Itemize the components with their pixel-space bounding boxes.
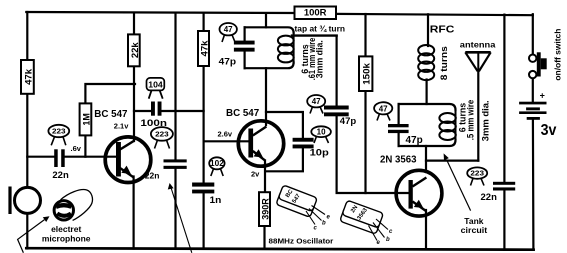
- wire Q1 emitter to ground: [133, 177, 135, 249]
- svg-text:47: 47: [312, 97, 321, 106]
- svg-text:2.1v: 2.1v: [114, 122, 129, 131]
- wire tank2 bottom: [399, 140, 456, 146]
- wire tank2 coil right side: [455, 109, 457, 141]
- svg-text:47p: 47p: [406, 135, 423, 146]
- resistor 1M: [80, 103, 92, 135]
- wire battery to ground rail: [532, 120, 535, 250]
- switch on/off: [529, 52, 547, 78]
- svg-text:47p: 47p: [219, 56, 237, 67]
- svg-text:b: b: [322, 221, 326, 227]
- svg-text:2N 3563: 2N 3563: [380, 154, 417, 165]
- svg-text:tap at ¾ turn: tap at ¾ turn: [295, 24, 346, 33]
- wire 22k to Q1 collector: [133, 66, 135, 141]
- wire top supply rail left segment: [26, 12, 296, 13]
- ceramic disc 223 (first): [48, 125, 69, 146]
- wire Q3 emitter to ground: [425, 210, 427, 249]
- svg-text:antenna: antenna: [460, 39, 496, 49]
- ceramic disc 47 (tank2): [374, 102, 392, 120]
- svg-text:104: 104: [148, 80, 163, 90]
- capacitor 47p (tank2): [388, 124, 409, 133]
- wire 47p coupling to Q3 base corner: [337, 116, 409, 193]
- wire tank1 top: [245, 27, 294, 33]
- svg-text:10: 10: [317, 127, 326, 136]
- wire tank2 left below cap: [398, 133, 400, 146]
- svg-text:.6v: .6v: [71, 144, 82, 153]
- svg-text:47: 47: [224, 25, 233, 34]
- svg-text:223: 223: [52, 127, 66, 136]
- wire tank1 coil right side: [293, 32, 295, 63]
- transistor Q1 BC547: [105, 137, 151, 183]
- wire 1n to ground: [203, 193, 205, 249]
- svg-text:100R: 100R: [304, 8, 327, 19]
- resistor 390R: [259, 192, 271, 226]
- transistor package pictorial 2N3563: [340, 200, 388, 240]
- wire 390R to ground: [263, 226, 265, 249]
- svg-text:2v: 2v: [251, 169, 260, 178]
- leader arrow microphone: [18, 216, 50, 253]
- svg-text:223: 223: [155, 130, 169, 139]
- svg-text:390R: 390R: [261, 198, 271, 220]
- antenna symbol: [465, 52, 490, 71]
- svg-text:.5 mm wire: .5 mm wire: [466, 100, 476, 141]
- svg-text:electret: electret: [51, 224, 81, 234]
- wire 22n(3) to ground: [503, 190, 505, 249]
- resistor 100R: [295, 7, 337, 20]
- ceramic disc 223 (output): [467, 167, 487, 185]
- resistor 22k: [128, 34, 140, 66]
- ceramic disc 10: [311, 126, 331, 143]
- svg-text:3mm dia.: 3mm dia.: [481, 100, 491, 141]
- svg-text:2.6v: 2.6v: [218, 129, 233, 138]
- wire rail stub to tank1: [265, 13, 267, 27]
- svg-text:microphone: microphone: [42, 234, 91, 244]
- pin labels e b c (pkg1): [314, 215, 331, 232]
- wire rail to 22n bypass cap: [174, 13, 176, 160]
- microphone symbol: [8, 187, 40, 215]
- inductor RFC 8 turns: [418, 45, 434, 80]
- wire rail to 47k(2): [203, 13, 205, 32]
- resistor 47k (mic bias): [21, 60, 34, 94]
- wire rail to 22n(3): [503, 15, 505, 182]
- svg-text:RFC: RFC: [430, 23, 455, 35]
- svg-text:47k: 47k: [200, 40, 210, 57]
- inductor L2 tank coil 5 turns: [439, 113, 455, 140]
- wire top supply rail right segment: [335, 14, 533, 15]
- capacitor 22n (mic coupling): [54, 149, 64, 167]
- capacitor 22n (supply bypass): [164, 159, 187, 169]
- svg-text:22n: 22n: [481, 192, 498, 203]
- capacitor 100n: [151, 102, 162, 116]
- svg-text:88MHz Oscillator: 88MHz Oscillator: [269, 237, 334, 246]
- label 2N 3563 on package: [350, 205, 369, 222]
- capacitor 1n: [192, 183, 214, 194]
- svg-text:102: 102: [210, 159, 224, 168]
- wire 47k(2) through base node to 1n: [203, 66, 205, 183]
- svg-text:1n: 1n: [210, 195, 222, 206]
- wire switch to battery: [532, 78, 534, 102]
- wire 10p top jog: [266, 112, 303, 138]
- wire tank1 left below cap: [244, 52, 246, 69]
- wire Q2 emitter to 390R: [264, 161, 266, 193]
- resistor 150k: [359, 56, 372, 91]
- wire 47k to mic node: [26, 94, 28, 188]
- battery 3v: [519, 102, 546, 120]
- leader arrow tank circuit: [444, 153, 471, 210]
- wire 1M bottom stub: [84, 135, 86, 157]
- svg-text:150k: 150k: [361, 62, 372, 84]
- svg-text:10p: 10p: [310, 148, 329, 159]
- wire Q2 base wire: [204, 140, 250, 142]
- svg-text:3v: 3v: [541, 122, 557, 139]
- transistor package pictorial BC547: [276, 185, 325, 225]
- resistor 47k (second stage bias): [198, 31, 210, 66]
- svg-text:1M: 1M: [82, 113, 92, 126]
- svg-text:8 turns: 8 turns: [439, 46, 449, 80]
- transistor Q3 2N3563: [396, 170, 442, 216]
- svg-text:BC 547: BC 547: [226, 107, 259, 119]
- wire bottom ground rail: [26, 248, 533, 250]
- wire rail corner to switch: [532, 14, 534, 54]
- wire coupling node y=111 right: [161, 110, 203, 112]
- capacitor 10p: [293, 138, 314, 149]
- svg-text:b: b: [386, 237, 390, 243]
- wire tank2 top: [399, 104, 456, 110]
- tank1 capacitor 47p: [234, 41, 255, 52]
- wire coupling node y=111 left: [134, 110, 151, 112]
- wire tank1 left above cap: [244, 27, 246, 41]
- wire Q3 collector to tank2: [425, 146, 427, 172]
- wire 10p bottom jog to emitter: [265, 148, 303, 171]
- wire antenna feed: [477, 71, 479, 161]
- wire tap down to 47p coupling: [336, 36, 338, 106]
- ceramic disc 104: [147, 78, 165, 99]
- svg-text:BC 547: BC 547: [94, 108, 127, 120]
- wire base wire Q1 right of 22n: [65, 156, 118, 158]
- ceramic disc 47 (tank1): [220, 23, 237, 42]
- svg-text:47k: 47k: [24, 68, 34, 85]
- wire rail to RFC: [427, 14, 429, 46]
- svg-text:223: 223: [470, 169, 484, 178]
- wire base wire Q1 left of 22n: [27, 156, 54, 158]
- capacitor 22n (output bypass): [493, 182, 515, 191]
- pin labels c b e (pkg2): [377, 229, 394, 246]
- svg-text:22k: 22k: [130, 42, 140, 59]
- leader arrow 22n bypass annotation: [168, 183, 192, 253]
- svg-text:on/off switch: on/off switch: [554, 28, 563, 80]
- wire 22n bypass to ground: [174, 169, 176, 249]
- inductor L1 oscillator coil 6 turns: [278, 36, 294, 63]
- label BC 547 on package: [285, 188, 302, 204]
- transistor Q2 BC547: [238, 121, 283, 166]
- wire 1M top L to collector: [85, 84, 135, 104]
- capacitor 47p coupling: [324, 106, 349, 117]
- ceramic disc 102: [209, 157, 224, 176]
- wire Q2 collector to tank1: [265, 68, 267, 125]
- wire tank1 bottom: [245, 63, 294, 69]
- wire RFC to tank2 top: [426, 80, 428, 105]
- electret microphone pictorial: [54, 190, 92, 221]
- svg-text:47p: 47p: [340, 116, 357, 127]
- wire tank2 left above cap: [398, 104, 400, 124]
- svg-text:3mm dia.: 3mm dia.: [315, 40, 325, 78]
- svg-text:47: 47: [379, 104, 388, 113]
- svg-text:+: +: [540, 90, 545, 100]
- svg-text:circuit: circuit: [461, 225, 488, 235]
- ceramic disc 47 (coupling): [307, 95, 325, 114]
- wire rail to 22k: [133, 13, 135, 35]
- svg-text:22n: 22n: [52, 170, 69, 181]
- wire antenna jog: [426, 160, 478, 162]
- wire mic to ground rail: [26, 214, 28, 249]
- wire left column x=27 rail to 47k: [26, 12, 28, 61]
- ceramic disc 223 (second): [151, 127, 173, 148]
- wire 150k to base node: [364, 91, 366, 193]
- wire rail to 150k: [364, 14, 366, 57]
- wire coil tap: [292, 34, 337, 36]
